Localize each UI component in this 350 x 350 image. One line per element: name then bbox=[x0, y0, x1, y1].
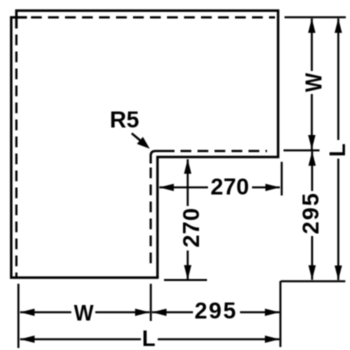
svg-text:W: W bbox=[74, 301, 94, 326]
dimension 270 horizontal bbox=[159, 186, 280, 188]
svg-text:L: L bbox=[142, 326, 155, 350]
R5 leader arrow bbox=[132, 133, 142, 141]
wire dashed left contour bbox=[15, 35, 17, 278]
dimension W + 295 bottom line bbox=[20, 311, 279, 313]
svg-text:270: 270 bbox=[178, 208, 204, 248]
worktop solid outline: left edge and bottom edge with top hook bbox=[11, 17, 159, 277]
svg-text:270: 270 bbox=[211, 173, 250, 199]
wire dashed step contour bbox=[181, 150, 268, 152]
extension line mid right bbox=[284, 149, 320, 151]
dimension 270 vertical bbox=[187, 159, 189, 279]
extension line bottom left vertical bbox=[17, 284, 19, 348]
svg-text:W: W bbox=[300, 73, 326, 92]
extension line bottom right vertical bbox=[279, 281, 281, 347]
extension line bottom horizontal bbox=[164, 280, 345, 281]
extension line top right bbox=[285, 16, 346, 18]
wire dashed top contour bbox=[31, 16, 275, 18]
dimension 295 right side bbox=[311, 151, 313, 279]
extension line notch right vertical bbox=[281, 162, 283, 196]
wire dashed notch-left contour bbox=[150, 168, 152, 270]
svg-text:295: 295 bbox=[298, 193, 324, 234]
svg-text:R5: R5 bbox=[110, 107, 140, 133]
dimension W right side bbox=[311, 18, 313, 149]
node R5 rounded inner corner bbox=[151, 151, 175, 164]
worktop solid outline: top edge, right edge, step edge, notch-left edge bbox=[16, 11, 278, 278]
dimension L right side bbox=[337, 18, 339, 280]
dimension L bottom line bbox=[20, 338, 279, 340]
svg-text:L: L bbox=[325, 143, 350, 156]
svg-text:295: 295 bbox=[194, 298, 236, 324]
extension line bottom middle vertical bbox=[150, 284, 152, 321]
